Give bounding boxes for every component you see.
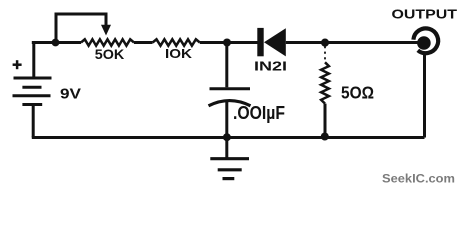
diode D1 1N21 cathode bar — [257, 28, 263, 56]
resistor R3 50 ohm body — [321, 62, 329, 103]
wire battery top corner — [32, 43, 35, 79]
resistor R2 10K body — [153, 39, 200, 45]
battery B1 plate 4 short — [22, 103, 42, 106]
svg-text:5OΩ: 5OΩ — [341, 82, 374, 102]
svg-text:IN2I: IN2I — [254, 59, 287, 74]
wire output jack to bottom rail — [423, 54, 426, 138]
label 50K — [95, 46, 125, 62]
watermark SeekIC.com — [382, 171, 455, 185]
wire battery bottom stem — [32, 105, 35, 138]
svg-text:5OK: 5OK — [95, 46, 125, 62]
wire diode to node B — [286, 41, 325, 44]
label 10K — [165, 46, 193, 61]
svg-text:OUTPUT: OUTPUT — [392, 7, 458, 22]
potentiometer wiper arrowhead — [101, 25, 111, 36]
diode D1 1N21 triangle — [264, 28, 286, 56]
wire top rail left segment — [32, 41, 81, 44]
node B junction dot — [321, 39, 329, 47]
svg-text:IOK: IOK — [165, 46, 193, 61]
potentiometer R1 50K body — [81, 39, 134, 45]
resistor R3 50 ohm dotted top lead — [324, 46, 326, 62]
capacitor C1 top plate — [210, 87, 251, 90]
label OUTPUT — [392, 7, 458, 22]
node junction dot at capacitor tap — [223, 39, 231, 47]
node A junction dot — [52, 39, 60, 47]
node junction dot on bottom rail below R3 — [321, 133, 329, 141]
label 50 ohm — [341, 82, 374, 102]
svg-text:SeekIC.com: SeekIC.com — [382, 171, 455, 185]
potentiometer wiper wire — [56, 14, 106, 41]
wire between 50K and 10K — [134, 41, 153, 44]
svg-text:.OOIµF: .OOIµF — [233, 103, 285, 123]
node junction dot on bottom rail at ground — [223, 133, 231, 141]
output jack J1 center pin — [417, 36, 431, 50]
label 1N21 — [254, 59, 287, 74]
ground symbol bar 2 — [218, 168, 242, 171]
wire node B to output jack — [325, 41, 420, 44]
ground symbol bar 1 — [210, 157, 249, 160]
label 9V — [60, 87, 81, 103]
output jack J1 outer ring — [413, 28, 438, 53]
resistor R3 bottom lead — [324, 104, 327, 138]
label .001uF — [233, 103, 285, 123]
capacitor C1 curved bottom plate — [209, 101, 251, 106]
battery B1 plate 2 short — [22, 86, 41, 89]
svg-text:9V: 9V — [60, 87, 81, 103]
battery B1 plate 3 long — [13, 94, 51, 97]
ground lead — [225, 138, 228, 159]
battery B1 plate 1 long — [14, 77, 52, 80]
ground symbol bar 3 — [223, 177, 235, 180]
battery B1 plus sign — [13, 60, 22, 69]
wire 10K to node A — [200, 41, 258, 44]
capacitor C1 top lead — [225, 43, 228, 88]
wire bottom rail — [32, 136, 425, 139]
capacitor C1 bottom lead — [225, 102, 228, 138]
